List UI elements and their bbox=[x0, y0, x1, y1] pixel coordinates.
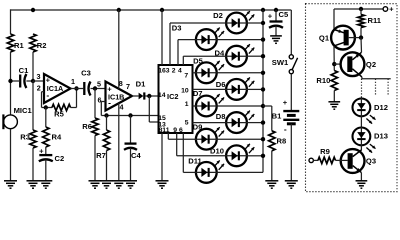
dashed expansion box border bbox=[306, 4, 398, 192]
svg-text:4: 4 bbox=[178, 67, 182, 74]
svg-text:D12: D12 bbox=[374, 103, 388, 112]
svg-text:4: 4 bbox=[120, 103, 124, 112]
wire terminal to R9 bbox=[313, 159, 318, 161]
wire to D12 bbox=[360, 97, 362, 99]
svg-text:R4: R4 bbox=[52, 133, 62, 142]
wire Q2 collector to expansion bus bbox=[361, 77, 363, 79]
wire Q2 emitter up to node bbox=[360, 38, 363, 53]
svg-text:C2: C2 bbox=[55, 154, 65, 163]
wire rail to C5 bbox=[275, 10, 277, 22]
wire R6 to ground bbox=[94, 136, 96, 181]
resistor R7 bbox=[103, 130, 109, 151]
op-amp IC1B bbox=[106, 82, 133, 111]
wire R5 to output bbox=[71, 107, 77, 109]
wire D5 to bus bbox=[217, 72, 263, 74]
svg-text:+: + bbox=[283, 98, 288, 107]
node IC1A output junction bbox=[74, 86, 78, 90]
node junction IC2 pin16 on rail bbox=[160, 8, 164, 12]
wire D3 to bus bbox=[217, 39, 263, 41]
svg-text:R1: R1 bbox=[14, 41, 24, 50]
LED D8 bbox=[225, 111, 254, 133]
svg-text:Q2: Q2 bbox=[366, 60, 376, 69]
node R7 junction bbox=[104, 113, 108, 117]
wire Q3 emitter to ground bbox=[360, 173, 362, 181]
resistor R1 bbox=[7, 34, 13, 52]
svg-text:D3: D3 bbox=[172, 24, 182, 33]
svg-text:IC2: IC2 bbox=[167, 92, 179, 101]
svg-text:R7: R7 bbox=[96, 151, 106, 160]
svg-text:R8: R8 bbox=[277, 137, 287, 146]
svg-text:Q1: Q1 bbox=[319, 33, 330, 42]
svg-text:IC1A: IC1A bbox=[47, 84, 63, 93]
wire Q1 collector down bbox=[333, 46, 335, 71]
ground C2 bbox=[39, 180, 52, 182]
capacitor C3 bbox=[83, 82, 85, 95]
svg-text:3: 3 bbox=[37, 72, 41, 81]
node junction R2 on rail bbox=[31, 8, 35, 12]
wire rail to SW1 bbox=[290, 10, 292, 55]
node bus junction bbox=[261, 37, 265, 41]
wire bus to R8 bbox=[263, 105, 272, 107]
wire IC1A pin2 stub bbox=[42, 91, 45, 93]
wire LED anode bus bbox=[262, 10, 264, 172]
node R11 on rail bbox=[359, 7, 363, 11]
wire R7 to ground bbox=[106, 151, 108, 181]
node bus junction bbox=[261, 154, 265, 158]
wire pin6 feedback line to IC2 pin15 bbox=[101, 115, 158, 117]
ground C4 bbox=[124, 180, 137, 182]
svg-text:5: 5 bbox=[97, 80, 101, 89]
node junction C5 on rail bbox=[274, 8, 278, 12]
svg-text:2: 2 bbox=[172, 67, 176, 74]
svg-text:C3: C3 bbox=[81, 69, 91, 78]
node D1 output junction bbox=[147, 94, 151, 98]
node bus junction bbox=[261, 87, 265, 91]
svg-text:R2: R2 bbox=[37, 41, 47, 50]
svg-text:D10: D10 bbox=[210, 147, 224, 156]
resistor R6 bbox=[92, 118, 98, 136]
wire IC2 pin4 to D4 bbox=[182, 56, 184, 65]
svg-text:MIC1: MIC1 bbox=[14, 106, 33, 115]
svg-text:+: + bbox=[39, 147, 44, 156]
wire IC2 pin8 to ground bbox=[161, 133, 163, 181]
capacitor C5 bbox=[270, 20, 283, 22]
node bus junction bbox=[261, 137, 265, 141]
wire R2 bottom to C1 node bbox=[32, 52, 34, 81]
wire pin3 node down to R3 bbox=[32, 81, 34, 130]
LED D10 bbox=[225, 144, 254, 166]
wire R9 to Q3 base bbox=[336, 159, 348, 161]
node junction LED bus on rail bbox=[261, 8, 265, 12]
svg-text:R6: R6 bbox=[82, 122, 92, 131]
svg-text:D5: D5 bbox=[193, 57, 203, 66]
transistor Q2 bbox=[341, 52, 365, 76]
wire D2 to bus bbox=[248, 22, 264, 24]
svg-text:6: 6 bbox=[179, 127, 183, 134]
wire D12 to D13 bbox=[360, 117, 362, 128]
svg-text:D8: D8 bbox=[216, 112, 226, 121]
wire D1 to IC2 pin14 bbox=[145, 95, 158, 97]
resistor R11 bbox=[360, 9, 362, 15]
wire MIC1 bottom to ground bbox=[10, 129, 12, 181]
wire IC2 pin2 to D3 bbox=[177, 40, 179, 65]
svg-text:2: 2 bbox=[37, 84, 41, 93]
svg-text:D1: D1 bbox=[136, 80, 146, 89]
resistor R3 bbox=[30, 130, 36, 148]
wire expansion output bus bbox=[362, 78, 391, 80]
microphone MIC1 bbox=[4, 115, 18, 129]
ground Q3 bbox=[356, 180, 368, 182]
ground C5 bbox=[270, 35, 282, 37]
wire C5 to ground bbox=[275, 26, 277, 36]
node Q2 base junction bbox=[332, 62, 336, 66]
ground mic bbox=[4, 180, 17, 182]
svg-text:7: 7 bbox=[184, 72, 188, 79]
svg-text:+: + bbox=[46, 75, 51, 84]
svg-text:D4: D4 bbox=[215, 48, 225, 57]
wire left rail drop to R1 bbox=[10, 9, 12, 34]
wire D4 to bus bbox=[248, 55, 264, 57]
svg-text:7: 7 bbox=[126, 82, 130, 91]
ground R10 bbox=[328, 101, 340, 103]
battery B1 bbox=[283, 110, 299, 112]
ground R7 bbox=[100, 180, 113, 182]
svg-text:C4: C4 bbox=[131, 151, 141, 160]
wire IC1A output bbox=[71, 88, 84, 90]
resistor R4 bbox=[43, 127, 49, 147]
node C1-right junction bbox=[31, 79, 35, 83]
wire junction down to C4 bbox=[130, 116, 132, 144]
capacitor C1 bbox=[19, 75, 21, 88]
node junction IC1B pin8 on rail bbox=[117, 8, 121, 12]
svg-text:14: 14 bbox=[158, 92, 166, 99]
node bus junction bbox=[261, 120, 265, 124]
svg-text:+: + bbox=[389, 5, 394, 14]
wire R4 to C2 bbox=[45, 147, 47, 155]
svg-text:B1: B1 bbox=[272, 112, 282, 121]
wire IC2 pin6 to D11 bbox=[182, 133, 184, 172]
ground R8 bbox=[265, 180, 278, 182]
svg-text:10: 10 bbox=[181, 87, 189, 94]
wire C1 left lead bbox=[11, 80, 21, 82]
node C4 junction bbox=[128, 113, 132, 117]
node bus junction bbox=[261, 71, 265, 75]
LED D4 bbox=[225, 44, 254, 66]
wire dotted expansion drop 3 bbox=[387, 79, 389, 95]
svg-text:+: + bbox=[268, 12, 273, 21]
ground IC2 pin8 bbox=[156, 180, 169, 182]
node R4 branch bbox=[44, 105, 48, 109]
node bus junction bbox=[261, 54, 265, 58]
wire IC1B output bbox=[132, 95, 139, 97]
wire IC2 pin16 from rail bbox=[161, 10, 163, 65]
svg-text:D11: D11 bbox=[188, 157, 202, 166]
wire Q1 base to R11 node bbox=[349, 37, 361, 39]
wire IC1B pin8 from rail bbox=[118, 10, 120, 89]
LED D9 bbox=[195, 127, 224, 149]
svg-text:R5: R5 bbox=[54, 110, 64, 119]
wire dotted expansion drop 2 bbox=[375, 79, 377, 95]
svg-text:C1: C1 bbox=[19, 66, 29, 75]
wire IC1B pin4 to ground bbox=[118, 103, 120, 181]
wire SW1 to battery bbox=[290, 74, 292, 111]
wire R1 bottom to C1/mic bbox=[10, 52, 12, 115]
node R6 junction bbox=[93, 86, 97, 90]
wire IC2 pin11 to D9 bbox=[167, 133, 169, 139]
node bus junction bbox=[261, 104, 265, 108]
svg-text:D7: D7 bbox=[193, 89, 203, 98]
svg-text:C5: C5 bbox=[279, 10, 289, 19]
wire C1 right lead bbox=[26, 80, 33, 82]
resistor R2 bbox=[30, 34, 36, 52]
wire rail corner down to Q1 emitter bbox=[333, 9, 335, 30]
node bus junction bbox=[261, 21, 265, 25]
resistor R8 bbox=[269, 131, 275, 151]
LED D13 bbox=[353, 127, 376, 153]
LED D2 bbox=[225, 11, 254, 33]
wire D10 to bus bbox=[248, 155, 264, 157]
wire IC2 pin7 to D5 bbox=[193, 72, 196, 74]
wire junction down to R7 bbox=[106, 116, 108, 131]
terminal R9 input bbox=[309, 158, 313, 162]
capacitor C4 bbox=[125, 142, 137, 144]
resistor R10 bbox=[331, 71, 337, 91]
switch SW1 bbox=[289, 55, 293, 59]
ground IC1B pin4 bbox=[112, 180, 125, 182]
LED D11 bbox=[195, 160, 224, 182]
wire node down to R4 bbox=[45, 108, 47, 128]
transistor Q1 bbox=[331, 26, 355, 50]
svg-text:D13: D13 bbox=[374, 132, 388, 141]
ground R6 bbox=[89, 180, 102, 182]
wire B1 to ground bbox=[290, 124, 292, 181]
wire D6 to bus bbox=[248, 88, 264, 90]
svg-text:R9: R9 bbox=[320, 147, 330, 156]
wire expansion supply rail bbox=[334, 8, 383, 10]
svg-text:3: 3 bbox=[166, 67, 170, 74]
diode D1 bbox=[139, 93, 144, 100]
svg-text:R3: R3 bbox=[20, 133, 30, 142]
wire top supply rail bbox=[11, 9, 292, 11]
node C1-left junction bbox=[8, 79, 12, 83]
wire R8 to ground bbox=[271, 151, 273, 181]
resistor R9 bbox=[318, 157, 336, 163]
svg-text:5: 5 bbox=[185, 119, 189, 126]
wire junction down to R6 bbox=[94, 89, 96, 119]
svg-text:R11: R11 bbox=[368, 16, 382, 25]
wire R3 to ground bbox=[32, 148, 34, 181]
wire junction down to pin13 bbox=[148, 96, 150, 122]
ground R3 bbox=[27, 180, 40, 182]
svg-text:IC1B: IC1B bbox=[108, 92, 124, 101]
node Q1 base / R11 / Q2 emitter bbox=[359, 35, 363, 39]
svg-text:-: - bbox=[284, 124, 287, 134]
svg-text:1: 1 bbox=[71, 77, 75, 86]
wire D11 to bus bbox=[217, 171, 263, 173]
wire IC1B pin6 stub bbox=[101, 101, 105, 103]
resistor R5 bbox=[52, 104, 71, 110]
LED D6 bbox=[225, 77, 254, 99]
wire IC2 pin3 to D2 bbox=[169, 23, 171, 65]
IC U2 (IC2 LED driver) bbox=[159, 65, 193, 133]
wire R10 to ground bbox=[333, 91, 335, 102]
LED D5 bbox=[195, 61, 224, 83]
wire C4 to ground bbox=[130, 148, 132, 181]
op-amp IC1A bbox=[44, 74, 71, 103]
svg-text:D2: D2 bbox=[213, 11, 223, 20]
wire IC2 pin10 to D6 bbox=[193, 88, 226, 90]
LED D12 bbox=[353, 98, 376, 124]
wire dotted drop to D12 bbox=[361, 79, 363, 97]
svg-text:SW1: SW1 bbox=[272, 58, 289, 67]
wire C2 to ground bbox=[45, 160, 47, 181]
wire D13 to Q3 collector bbox=[360, 146, 362, 151]
svg-text:1: 1 bbox=[185, 101, 189, 108]
svg-text:R10: R10 bbox=[316, 76, 330, 85]
svg-text:D6: D6 bbox=[216, 80, 226, 89]
svg-text:11: 11 bbox=[162, 127, 169, 134]
wire IC2 pin1 to D7 bbox=[193, 105, 196, 107]
wire IC2 pin9 to D10 bbox=[176, 133, 178, 156]
ground B1 bbox=[285, 180, 298, 182]
svg-text:Q3: Q3 bbox=[366, 157, 376, 166]
wire Q2 base bbox=[334, 63, 341, 65]
svg-text:9: 9 bbox=[173, 127, 177, 134]
transistor Q3 bbox=[341, 149, 365, 173]
LED D3 bbox=[195, 28, 224, 50]
wire D7 to bus bbox=[217, 105, 263, 107]
LED D7 bbox=[195, 94, 224, 116]
wire node to IC1A pin 3 bbox=[33, 80, 44, 82]
terminal + supply bbox=[383, 7, 388, 12]
wire C3 to IC1B pin5 bbox=[91, 88, 106, 90]
wire D9 to bus bbox=[217, 138, 263, 140]
capacitor C2 bbox=[39, 154, 52, 156]
wire IC2 pin5 to D8 bbox=[193, 122, 226, 124]
svg-text:D9: D9 bbox=[193, 123, 203, 132]
wire feedback to R5 bbox=[42, 107, 53, 109]
wire D8 to bus bbox=[248, 122, 264, 124]
